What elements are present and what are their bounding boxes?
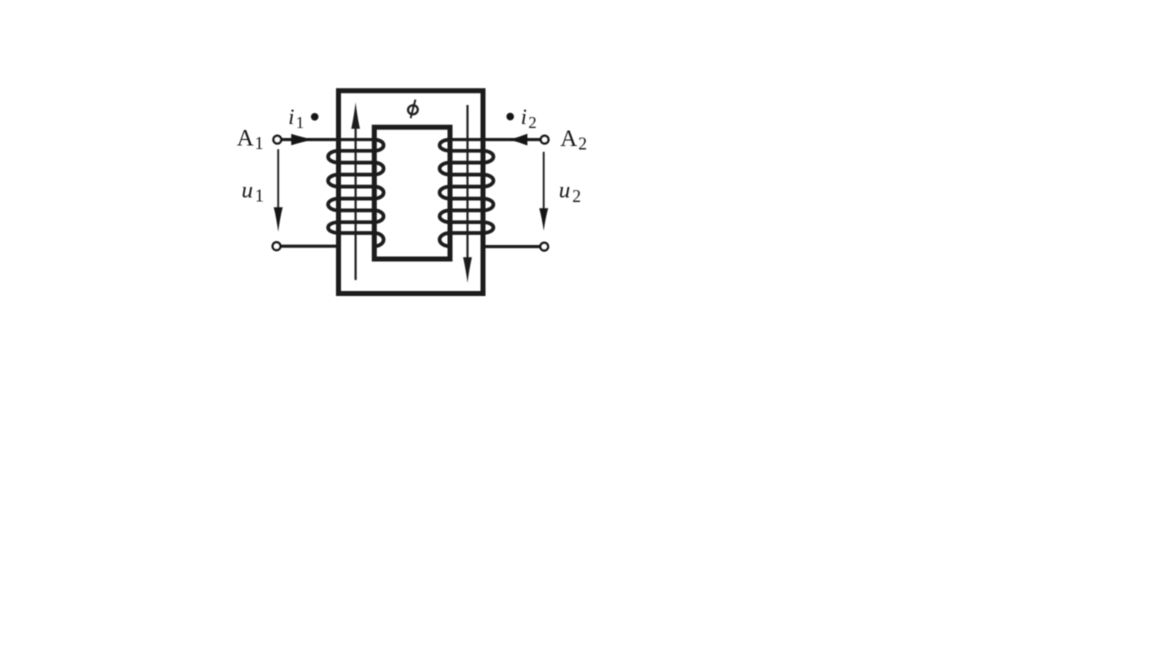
svg-text:A1: A1 <box>237 125 264 153</box>
current arrow i2 <box>509 134 527 146</box>
flux arrowhead left leg <box>351 102 360 129</box>
flux line right leg (downward) <box>466 105 468 259</box>
flux label phi <box>407 100 418 119</box>
voltage arrow u1 head <box>274 207 283 232</box>
wire bottom-left terminal to core <box>281 245 339 248</box>
polarity dot primary <box>311 113 319 121</box>
flux line left leg (upward) <box>355 128 357 281</box>
svg-text:u1: u1 <box>242 177 264 205</box>
flux arrowhead right leg <box>463 257 472 283</box>
transformer core outer edge <box>339 91 484 294</box>
secondary winding window-side loops <box>440 140 450 247</box>
svg-text:u2: u2 <box>559 178 581 206</box>
voltage arrow u1 line <box>277 149 279 212</box>
polarity dot secondary <box>506 113 514 121</box>
terminal A1 <box>273 136 281 144</box>
voltage arrow u2 head <box>539 208 548 231</box>
current arrow i1 <box>291 134 313 145</box>
svg-text:i2: i2 <box>521 104 537 132</box>
wire A1 terminal to primary winding <box>282 138 375 141</box>
secondary winding crossing turns <box>449 151 485 233</box>
terminal A2 <box>541 136 549 144</box>
terminal bottom-left <box>273 242 281 250</box>
wire A2 terminal to secondary winding <box>450 138 540 141</box>
svg-text:A2: A2 <box>560 126 587 154</box>
wire bottom-right terminal to core <box>483 245 540 248</box>
secondary winding outer-side loops <box>483 151 493 233</box>
primary winding outer-side loops <box>328 151 338 233</box>
primary winding crossing turns <box>337 151 376 233</box>
voltage arrow u2 line <box>543 152 545 213</box>
primary winding window-side loops <box>374 140 383 247</box>
transformer core window inner edge <box>374 127 450 259</box>
terminal bottom-right <box>540 243 548 251</box>
svg-text:i1: i1 <box>288 104 304 132</box>
